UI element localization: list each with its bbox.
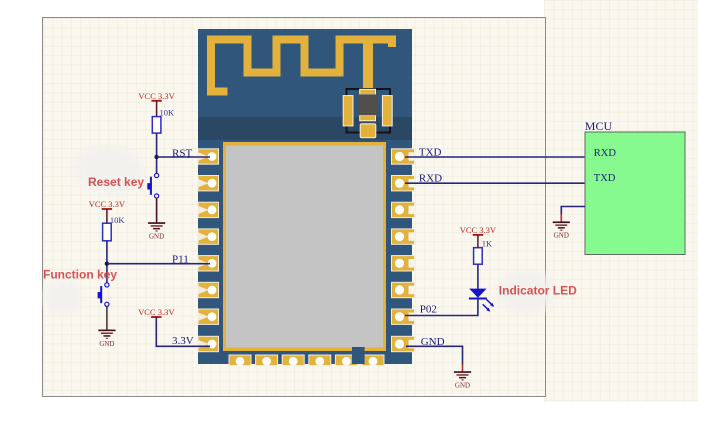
- wire GND pin to ground: [406, 346, 463, 371]
- power port VCC 3.3V (function pull-up): [89, 199, 126, 224]
- svg-text:VCC 3.3V: VCC 3.3V: [460, 225, 497, 235]
- svg-text:10K: 10K: [160, 108, 176, 118]
- wire RST to module pin: [157, 156, 210, 158]
- RF shield can: [223, 142, 386, 351]
- left castellated pad column: [198, 149, 219, 352]
- svg-text:GND: GND: [99, 340, 114, 348]
- wire MCU ground: [561, 207, 585, 223]
- wire button to ground: [106, 306, 108, 329]
- power port VCC 3.3V (module supply): [138, 307, 175, 319]
- wire resistor to LED: [477, 264, 479, 289]
- power port VCC 3.3V (LED): [460, 225, 497, 248]
- svg-text:1K: 1K: [482, 239, 493, 249]
- svg-text:TXD: TXD: [419, 147, 442, 159]
- svg-text:RXD: RXD: [419, 172, 442, 184]
- svg-text:RST: RST: [172, 147, 192, 159]
- antenna feed trace: [363, 36, 373, 89]
- svg-text:RXD: RXD: [594, 148, 617, 159]
- resistor 10K (reset pull-up): [152, 117, 161, 134]
- svg-text:GND: GND: [554, 232, 569, 240]
- svg-text:3.3V: 3.3V: [172, 335, 194, 347]
- wifi module PCB board: [198, 29, 412, 364]
- wire TXD module to MCU: [405, 156, 585, 158]
- right castellated pad column: [392, 149, 416, 352]
- ground GND (module): [454, 371, 471, 389]
- PCB meander antenna: [211, 40, 392, 92]
- push button (reset key): [147, 173, 158, 198]
- svg-text:VCC 3.3V: VCC 3.3V: [89, 199, 126, 209]
- MCU block: [585, 132, 685, 255]
- ground GND (function key): [98, 330, 115, 348]
- svg-text:Function key: Function key: [43, 268, 117, 282]
- svg-text:P11: P11: [172, 253, 189, 265]
- power port VCC 3.3V (reset pull-up): [138, 91, 175, 117]
- wire VCC to 3.3V pin: [156, 318, 210, 346]
- svg-text:10K: 10K: [110, 215, 126, 225]
- junction P11 node: [105, 262, 109, 266]
- wire resistor to RST node and button: [156, 133, 158, 173]
- LED indicator diode: [469, 289, 494, 312]
- svg-text:P02: P02: [420, 303, 437, 315]
- svg-text:Indicator LED: Indicator LED: [499, 283, 577, 297]
- svg-text:MCU: MCU: [585, 119, 613, 133]
- push button (function key): [98, 283, 109, 307]
- svg-text:GND: GND: [421, 336, 445, 348]
- wire button to ground: [156, 198, 158, 222]
- bottom pad row: [229, 355, 384, 366]
- ground GND (MCU): [553, 221, 570, 239]
- module bottom edge tab: [352, 347, 365, 364]
- wire P11 to module pin: [107, 263, 210, 265]
- svg-text:TXD: TXD: [594, 173, 616, 184]
- resistor 10K (function pull-up): [103, 223, 112, 241]
- svg-text:VCC 3.3V: VCC 3.3V: [138, 307, 175, 317]
- svg-text:Reset key: Reset key: [88, 175, 144, 189]
- resistor 1K (LED): [474, 248, 483, 265]
- wire resistor to P11 node and button: [106, 241, 108, 283]
- ground GND (reset key): [148, 222, 165, 240]
- wire LED to P02 pin: [405, 300, 478, 316]
- svg-text:GND: GND: [455, 382, 470, 390]
- svg-text:VCC 3.3V: VCC 3.3V: [138, 91, 175, 101]
- svg-text:GND: GND: [149, 233, 164, 241]
- RF matching component: [343, 89, 392, 138]
- junction RST node: [154, 155, 158, 159]
- wire RXD module to MCU: [405, 182, 585, 184]
